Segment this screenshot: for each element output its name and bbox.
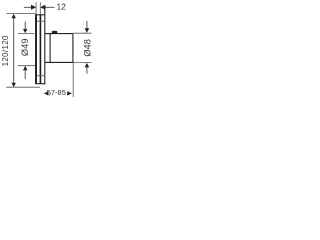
body left edge: [49, 34, 51, 63]
extension line left of 12 dim: [35, 2, 37, 14]
plate inner vertical line: [39, 15, 41, 84]
O48 top extension line: [73, 32, 92, 34]
seam lower: [37, 75, 45, 77]
seam upper: [37, 20, 45, 22]
plate bottom edge: [35, 83, 45, 85]
120/120 bottom extension line: [6, 86, 40, 88]
wall line: [44, 8, 46, 85]
svg-text:12: 12: [56, 2, 66, 12]
O48 bottom arrow pointing up: [85, 63, 90, 68]
57-85 right extension line (from body right edge down): [72, 62, 74, 97]
body right edge: [72, 34, 74, 63]
svg-text:120/120: 120/120: [1, 35, 10, 66]
body bottom edge: [45, 61, 73, 63]
120/120 top arrow: [12, 14, 16, 19]
O49 bottom extension line: [18, 65, 37, 67]
dimension line "12" left segment: [24, 6, 31, 8]
dimension line "12" right segment: [45, 6, 55, 8]
body top edge: [45, 33, 73, 35]
O48 dim line lower segment: [86, 67, 88, 74]
57-85 left arrow: [44, 91, 49, 95]
57-85 right arrow: [67, 91, 72, 95]
plate front face (thick): [35, 14, 37, 84]
bump on body top: [52, 31, 58, 34]
svg-text:Ø49: Ø49: [20, 39, 30, 57]
O49 top extension line: [18, 32, 34, 34]
O48 dim line upper segment: [86, 21, 88, 29]
svg-text:Ø48: Ø48: [83, 39, 93, 57]
O49 dim line upper segment: [24, 22, 26, 30]
O49 dim line lower segment: [24, 70, 26, 80]
arrow left-pointing (12 dim right): [40, 5, 45, 10]
120/120 bottom arrow: [12, 83, 16, 88]
120/120 top extension line: [6, 13, 35, 15]
O48 top arrow pointing down: [85, 28, 90, 32]
svg-text:57-85: 57-85: [47, 88, 66, 97]
120/120 dimension vertical line: [13, 17, 15, 85]
O48 bottom extension line: [73, 61, 92, 63]
O49 top arrow pointing down: [23, 29, 27, 33]
extension line right of 12 dim: [39, 2, 41, 14]
arrow right-pointing (12 dim left): [31, 5, 36, 10]
O49 bottom arrow pointing up: [23, 66, 27, 71]
plate top edge: [36, 14, 45, 16]
